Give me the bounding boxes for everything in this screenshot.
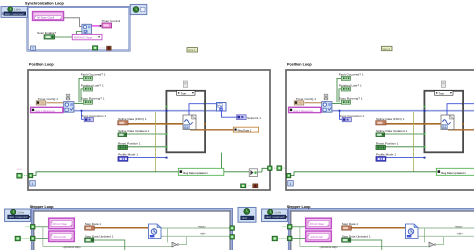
loop stop group (sync): [93, 46, 112, 50]
label Synchronization Loop: [25, 2, 64, 6]
svg-text:1kHz <reserved>: 1kHz <reserved>: [8, 215, 28, 219]
wire scan enable to node: [55, 32, 82, 38]
label Timer Control: [102, 19, 121, 23]
svg-text:Synchronization Loop: Synchronization Loop: [25, 2, 64, 6]
dropdown NI PXI IO Scan: [72, 34, 102, 39]
svg-text:1kHz <reserved>: 1kHz <reserved>: [5, 12, 25, 16]
svg-text:1: 1: [32, 47, 34, 51]
svg-text:NI Scan Clock: NI Scan Clock: [37, 16, 55, 20]
timed loop input node (sync): [1, 7, 27, 18]
svg-text:1kHz...: 1kHz...: [241, 216, 249, 220]
while loop Position Loop 2: [286, 63, 474, 191]
timed loop output node (stepper 1): [238, 207, 256, 222]
timing source NI Scan Clock: [33, 12, 64, 21]
timed loop Synchronization Loop border: [28, 7, 130, 51]
svg-text:1 kHz: 1 kHz: [14, 7, 21, 11]
shared variable node between position loops: [272, 166, 287, 171]
shared variable node left of position loop 1: [17, 173, 29, 178]
wire timing source to node: [64, 18, 82, 27]
label faint prev near shared variable: [16, 168, 24, 171]
timed loop input node (stepper 2): [262, 209, 288, 222]
vi icon version 3: [382, 46, 393, 51]
vi icon version 1: [187, 48, 198, 53]
wire node to dropdown: [86, 33, 88, 35]
svg-text:Timer Control: Timer Control: [102, 19, 121, 23]
svg-text:Vers 1: Vers 1: [188, 48, 196, 52]
loop iteration terminal (sync): [31, 46, 36, 51]
wire magenta node to timer control: [92, 25, 102, 27]
svg-text:NI PXI IO Scan: NI PXI IO Scan: [74, 36, 93, 40]
timed loop Stepper Loop 2: [272, 205, 474, 250]
svg-text:~prev~: ~prev~: [16, 168, 24, 171]
while loop Position Loop 1: [28, 63, 272, 191]
control Timer Control terminal: [100, 23, 112, 28]
svg-text:1 kHz: 1 kHz: [17, 210, 24, 214]
svg-text:Vers 3: Vers 3: [383, 47, 391, 51]
svg-text:Scan Enable?: Scan Enable?: [37, 31, 57, 35]
timed loop Stepper Loop 1: [15, 205, 234, 250]
svg-text:1 kHz: 1 kHz: [274, 210, 281, 214]
label Scan Enable?: [37, 31, 57, 35]
timed loop output node (sync): [130, 4, 147, 14]
constant Scan Enable true: [44, 35, 54, 39]
node timed source U2: [82, 24, 92, 34]
svg-text:1kHz <reserved>: 1kHz <reserved>: [265, 215, 285, 219]
timed loop input node (stepper 1): [5, 209, 31, 222]
